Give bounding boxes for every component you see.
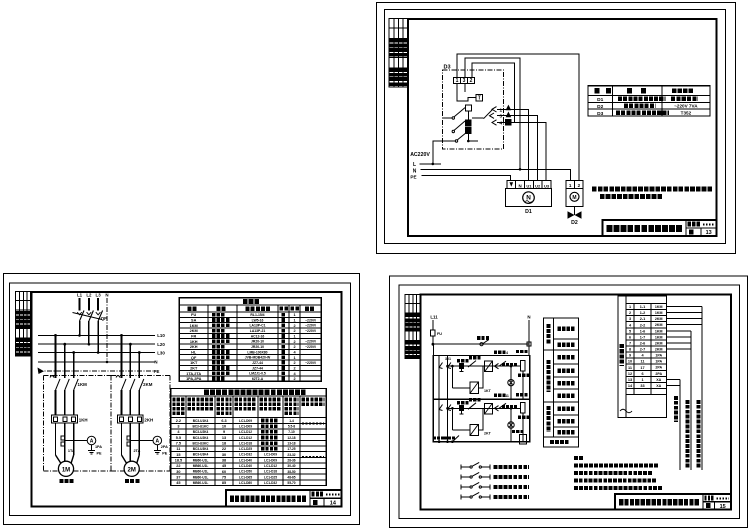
svg-text:JVB-MDB420-W: JVB-MDB420-W [245, 356, 271, 360]
contactor 2KM contacts [122, 379, 144, 390]
wires contactor to thermal relay [122, 390, 140, 415]
lamp 2HL [508, 407, 514, 442]
terminal row 4 [629, 323, 663, 327]
fan motor D1 body [506, 189, 552, 207]
wire stub terminal3 down [464, 83, 466, 92]
note line 4 [574, 486, 662, 490]
svg-text:2: 2 [293, 340, 295, 344]
bus N [38, 360, 158, 365]
svg-text:~220V/: ~220V/ [305, 340, 316, 344]
terminal row 10 [628, 360, 663, 364]
svg-text:7.5: 7.5 [176, 442, 181, 446]
svg-text:1KM: 1KM [655, 335, 663, 339]
svg-text:M: M [572, 195, 576, 201]
incoming phase labels L1 L2 L3 N [77, 293, 109, 298]
svg-text:L11: L11 [430, 315, 438, 320]
wire N drop [528, 320, 530, 344]
svg-text:LC1-D09: LC1-D09 [239, 424, 252, 428]
svg-text:2KM: 2KM [655, 341, 663, 345]
equipment row FU [191, 313, 196, 317]
equipment table rows [179, 317, 321, 376]
label KT contact [502, 363, 518, 366]
control supply rail [432, 342, 532, 346]
wires contactor to thermal relay [56, 390, 74, 415]
svg-text:QF: QF [191, 356, 197, 360]
bus junction dots [78, 334, 108, 363]
ammeter ground [88, 445, 102, 456]
selection table rows [171, 423, 326, 480]
svg-text:N: N [154, 360, 157, 365]
vertical label terminal strip [619, 344, 624, 366]
svg-text:U1: U1 [526, 183, 532, 188]
table title She Bei Biao [243, 299, 260, 304]
panel B inner thin border [10, 283, 351, 516]
svg-text:LC1-D40: LC1-D40 [239, 464, 252, 468]
table row D3 [597, 111, 603, 117]
wire output row3 to terminal U3 [497, 123, 546, 181]
svg-text:18: 18 [222, 442, 226, 446]
remote switch label 4 [494, 495, 529, 499]
svg-text:~220V/: ~220V/ [305, 345, 316, 349]
section 2 main wire [446, 407, 520, 410]
equipment row QF [191, 356, 197, 360]
label SA [477, 336, 490, 340]
svg-text:JR20-10: JR20-10 [251, 345, 264, 349]
svg-text:8: 8 [629, 348, 631, 352]
svg-text:PE: PE [162, 452, 168, 456]
svg-text:1TA: 1TA [68, 449, 75, 453]
svg-text:2KH: 2KH [144, 418, 153, 423]
valve actuator D2 body [566, 189, 583, 207]
equipment row 1TA,2TA [186, 372, 201, 376]
svg-text:13-18: 13-18 [287, 442, 295, 446]
XA auxiliary box bottom right [519, 434, 526, 443]
remote switch label 2 [494, 475, 529, 479]
fuse FU [431, 330, 443, 336]
label 1SB [457, 359, 469, 362]
svg-text:FU: FU [191, 313, 196, 317]
svg-text:L3: L3 [96, 293, 102, 298]
contact blade section 2 [468, 403, 476, 410]
svg-text:2: 2 [578, 183, 581, 188]
svg-text:2: 2 [293, 377, 295, 381]
dashes in last column [302, 424, 324, 458]
function description table [544, 318, 579, 447]
svg-text:1KM: 1KM [655, 329, 663, 333]
svg-text:~220V/: ~220V/ [305, 318, 316, 322]
svg-text:U2: U2 [535, 183, 541, 188]
svg-text:3: 3 [463, 78, 466, 84]
svg-text:11: 11 [505, 394, 509, 398]
svg-text:2KM: 2KM [655, 323, 663, 327]
wire terminal1 down to thermostat sensor T [457, 83, 476, 101]
current transformer 1TA [61, 436, 65, 446]
svg-text:2: 2 [293, 324, 295, 328]
svg-text:2: 2 [293, 329, 295, 333]
svg-text:37: 37 [176, 475, 180, 479]
terminal header 1 3 2 [454, 77, 475, 84]
svg-text:13: 13 [706, 230, 712, 236]
terminal row 9 [629, 354, 663, 358]
svg-text:4: 4 [506, 351, 508, 355]
remote switch symbol 2 [461, 472, 490, 479]
panel C signature strip table [405, 295, 420, 359]
bus PE dash-dot [38, 369, 159, 374]
svg-text:2PA: 2PA [655, 372, 662, 376]
svg-text:1PA: 1PA [655, 360, 662, 364]
svg-text:BC3-U2K4: BC3-U2K4 [193, 430, 209, 434]
note line 2 [574, 471, 652, 475]
contactor coil 1KM [520, 361, 525, 400]
svg-text:7: 7 [629, 342, 631, 346]
svg-text:L30: L30 [157, 350, 165, 355]
panel C outer sheet border [390, 276, 748, 528]
contact row numbers 1 3 4 [500, 107, 503, 125]
section 1 main wire [446, 365, 520, 368]
svg-text:1-2: 1-2 [640, 311, 646, 315]
selection row 11kW [176, 447, 295, 451]
terminal row 8 [629, 347, 663, 351]
svg-text:N: N [527, 315, 530, 320]
bus L10 [38, 333, 165, 338]
svg-text:U3: U3 [544, 183, 550, 188]
svg-text:1PA: 1PA [655, 354, 662, 358]
svg-text:D2: D2 [597, 104, 603, 110]
rotated cable label 2 [685, 400, 689, 468]
remote switch label 3 [494, 485, 529, 489]
svg-text:LC1-D32: LC1-D32 [239, 453, 252, 457]
panel A outer sheet border [377, 3, 736, 254]
svg-text:1PA,2PA: 1PA,2PA [186, 377, 202, 381]
svg-text:1-4: 1-4 [289, 419, 294, 423]
bus L20 [38, 342, 165, 347]
selection row 45kW [176, 481, 296, 485]
svg-text:LC1-D18: LC1-D18 [239, 441, 252, 445]
svg-text:2PA: 2PA [655, 366, 662, 370]
selection row 15kW [176, 453, 296, 457]
wires thermal relay to motor [56, 423, 74, 463]
left vertical wire 1 [439, 356, 442, 442]
svg-text:D3: D3 [597, 111, 603, 117]
svg-text:5: 5 [629, 329, 631, 333]
svg-text:60: 60 [222, 470, 226, 474]
svg-text:D1: D1 [525, 209, 532, 215]
svg-text:5.5: 5.5 [176, 436, 181, 440]
svg-text:AC12-16: AC12-16 [251, 334, 265, 338]
bottom rail junction dots and labels [438, 436, 459, 444]
remote switch symbol 3 [461, 482, 490, 489]
equipment row 1PA,2PA [186, 377, 202, 381]
contact blade section 1 [468, 361, 476, 368]
svg-text:4: 4 [293, 350, 296, 354]
svg-text:LC1-D32: LC1-D32 [264, 481, 277, 485]
svg-text:17: 17 [640, 366, 644, 370]
pushbutton 2SB [459, 406, 463, 414]
thermostat enclosure D3 (dash-dot box) [443, 70, 504, 149]
svg-text:MB60-U1L: MB60-U1L [193, 481, 209, 485]
svg-text:XA: XA [656, 378, 661, 382]
svg-text:LC1-D09: LC1-D09 [239, 419, 252, 423]
svg-text:2.2: 2.2 [176, 419, 181, 423]
svg-text:1KH: 1KH [190, 340, 198, 344]
svg-text:T352: T352 [681, 111, 692, 116]
svg-text:AC220V: AC220V [410, 152, 430, 158]
lamp 1HL [508, 365, 514, 399]
panel C title block [615, 494, 731, 510]
svg-text:2-1: 2-1 [640, 317, 646, 321]
bottom full-width function row text [550, 440, 570, 444]
svg-text:1: 1 [293, 319, 295, 323]
svg-text:HL: HL [191, 350, 197, 354]
selection row 30kW [176, 470, 296, 474]
motor 1M [58, 461, 73, 476]
svg-text:33: 33 [640, 384, 644, 388]
svg-text:N: N [105, 293, 108, 298]
svg-text:~220V 7VA: ~220V 7VA [674, 104, 698, 109]
svg-text:A: A [155, 439, 159, 445]
break marks on enclosure top [50, 376, 120, 378]
equipment row 2KH [190, 345, 198, 349]
svg-text:LC1-D09: LC1-D09 [264, 458, 277, 462]
feeder 1 tap wires [54, 334, 75, 378]
chevron contact section 2 [495, 403, 507, 411]
equipment row 1KT [190, 361, 198, 365]
panel A title block [603, 220, 717, 236]
motor 2M [124, 461, 139, 476]
svg-text:LC1-D12: LC1-D12 [264, 464, 277, 468]
svg-text:18.5: 18.5 [175, 458, 182, 462]
svg-text:1PA: 1PA [95, 445, 102, 449]
svg-text:2PA: 2PA [161, 445, 168, 449]
svg-text:LMB-100X80: LMB-100X80 [247, 350, 267, 354]
svg-text:12: 12 [628, 372, 632, 376]
group labels vertical [546, 324, 550, 432]
svg-text:L20: L20 [157, 342, 165, 347]
thermal relay 1KH [51, 415, 77, 423]
svg-text:10: 10 [628, 360, 632, 364]
svg-text:23-32: 23-32 [287, 453, 295, 457]
svg-text:15: 15 [176, 453, 180, 457]
selection row 37kW [176, 475, 296, 479]
svg-text:PE: PE [96, 452, 102, 456]
svg-text:13: 13 [222, 436, 226, 440]
svg-text:1: 1 [569, 183, 572, 188]
wire W3 terminal2 loop [472, 63, 515, 122]
svg-text:A: A [90, 439, 94, 445]
svg-text:2: 2 [293, 345, 295, 349]
label 1KM aux [469, 356, 481, 359]
note line 1 [574, 464, 658, 468]
fan name label [59, 479, 74, 483]
svg-text:MB60-U1L: MB60-U1L [193, 470, 209, 474]
feeder 2 tap wires [120, 334, 141, 378]
thermal relay 2KH [117, 415, 143, 423]
svg-text:12-18: 12-18 [287, 436, 295, 440]
svg-text:7-10: 7-10 [288, 430, 295, 434]
svg-text:L10: L10 [157, 333, 165, 338]
svg-text:N: N [413, 168, 417, 174]
terminal row 7 [629, 341, 663, 345]
svg-text:LC1-D25: LC1-D25 [264, 475, 277, 479]
svg-text:22: 22 [176, 464, 180, 468]
svg-text:1: 1 [293, 334, 295, 338]
timer relay 2KT [452, 408, 483, 435]
svg-text:LC1-D50: LC1-D50 [239, 470, 252, 474]
note text line 1 [592, 187, 712, 192]
current transformer 2TA [127, 436, 131, 446]
selection table columns [186, 396, 300, 485]
svg-text:4: 4 [641, 354, 644, 358]
svg-text:LA13P-21: LA13P-21 [250, 329, 266, 333]
wire W1 terminal1 to valve D2 terminal 2 [457, 54, 579, 181]
supply labels AC220V L N PE [410, 152, 430, 180]
svg-text:1KM: 1KM [78, 382, 88, 387]
mid rail [433, 398, 530, 400]
svg-text:6: 6 [629, 335, 631, 339]
table header cell Ming Cheng [627, 88, 632, 93]
svg-text:MB60-U1L: MB60-U1L [193, 475, 209, 479]
svg-text:1M: 1M [62, 467, 70, 473]
svg-text:1KM: 1KM [655, 305, 663, 309]
svg-text:55-70: 55-70 [287, 481, 295, 485]
svg-text:2KM: 2KM [143, 382, 153, 387]
timer relay 1KT [452, 366, 483, 393]
svg-text:JR20-10: JR20-10 [251, 340, 264, 344]
svg-text:L2: L2 [86, 293, 92, 298]
svg-text:D2: D2 [571, 220, 578, 226]
cable bundle wires rows 1-4 [666, 307, 702, 471]
temperature sensor T [476, 94, 482, 101]
wire W2 terminal3 to N line junction [465, 58, 520, 169]
svg-text:1-7: 1-7 [640, 335, 646, 339]
svg-text:1: 1 [293, 313, 295, 317]
fan name label [125, 479, 140, 483]
selection row 4kW [177, 430, 295, 434]
selection row 3kW [177, 424, 295, 428]
svg-text:JZ7-44: JZ7-44 [252, 366, 263, 370]
wire L11 drop [432, 320, 434, 330]
selection parameter table [171, 389, 326, 486]
panel C inner thin border [399, 285, 740, 519]
selection row 7.5kW [176, 441, 296, 445]
chevron contact section 1 [495, 361, 507, 369]
svg-text:11: 11 [628, 366, 632, 370]
selection table title [204, 390, 305, 395]
terminal strip table [618, 296, 666, 417]
neutral dash-dot wire [106, 298, 108, 362]
thermostat internal contact ladder [443, 105, 478, 142]
svg-text:1KH: 1KH [79, 418, 88, 423]
svg-text:45: 45 [222, 464, 226, 468]
svg-text:2: 2 [629, 311, 631, 315]
svg-text:2TA: 2TA [133, 449, 140, 453]
svg-text:MB60-U1L: MB60-U1L [193, 464, 209, 468]
rotated cable label 1 [674, 396, 678, 422]
svg-text:LMZJ1-0.5: LMZJ1-0.5 [249, 372, 266, 376]
contactor coil 2KM [520, 403, 525, 442]
svg-text:LC1-D25: LC1-D25 [239, 447, 252, 451]
wire N to valve terminal D2-1 [421, 168, 571, 181]
svg-text:1KT: 1KT [484, 389, 492, 393]
svg-text:1: 1 [641, 378, 643, 382]
ammeter 2PA [153, 436, 162, 445]
svg-text:2KM: 2KM [655, 347, 663, 351]
rotated cable label 3 [696, 400, 700, 468]
terminal row 14 [628, 384, 662, 388]
svg-text:L1: L1 [77, 293, 83, 298]
svg-text:LC1-D09: LC1-D09 [264, 453, 277, 457]
svg-text:38-50: 38-50 [287, 470, 295, 474]
terminal block D1 of fan motor [507, 181, 551, 189]
svg-text:BC3-U1KC: BC3-U1KC [192, 424, 209, 428]
panel A main thick frame [408, 19, 717, 236]
svg-text:1KT: 1KT [190, 361, 198, 365]
output symbols arrows and square [505, 105, 511, 125]
phase drop wires [80, 298, 99, 311]
selection row 5.5kW [176, 436, 296, 440]
svg-text:LA13P-C1: LA13P-C1 [249, 324, 265, 328]
butterfly valve symbol [568, 207, 582, 219]
wire PE to motor ground terminal [422, 175, 511, 180]
svg-text:2KT: 2KT [190, 366, 198, 370]
equipment row FR [191, 334, 196, 338]
panel B: fan power distribution schematic sheet [4, 274, 360, 525]
svg-text:BC3-U2K4: BC3-U2K4 [193, 436, 209, 440]
equipment row HL [191, 350, 197, 354]
svg-text:30-40: 30-40 [287, 464, 295, 468]
equipment row 1KH [190, 340, 198, 344]
svg-text:2-7: 2-7 [640, 348, 646, 352]
svg-text:3: 3 [629, 317, 631, 321]
svg-text:4: 4 [293, 372, 296, 376]
terminal row 13 [628, 378, 662, 382]
svg-text:48-65: 48-65 [287, 475, 295, 479]
terminal row 5 [629, 329, 663, 333]
svg-text:14: 14 [628, 384, 633, 388]
ammeter ground [154, 445, 168, 456]
svg-text:6: 6 [641, 372, 643, 376]
bus L30 [38, 350, 165, 355]
svg-text:9: 9 [629, 354, 631, 358]
svg-text:2: 2 [470, 78, 473, 84]
L feed wire into thermostat [432, 141, 444, 165]
PE arrow symbol [38, 368, 45, 375]
svg-text:XA: XA [656, 384, 661, 388]
svg-text:PE: PE [154, 369, 160, 374]
break mark in terminal table [620, 409, 632, 413]
svg-text:13: 13 [628, 378, 632, 382]
thermostat output selector contacts [472, 107, 497, 126]
panel A inner thin border [385, 10, 726, 244]
svg-text:1KM: 1KM [190, 324, 198, 328]
svg-text:LC1-D12: LC1-D12 [239, 436, 252, 440]
terminal rows [626, 310, 666, 395]
label KT contact [502, 405, 518, 408]
remote switch symbol 4 [461, 492, 490, 499]
terminal row 3 [629, 317, 663, 321]
svg-text:2KT: 2KT [484, 431, 492, 435]
svg-text:38: 38 [222, 458, 226, 462]
svg-text:15: 15 [720, 504, 726, 510]
terminal row 6 [629, 335, 663, 339]
wires thermal relay to motor [122, 423, 140, 463]
remote switch label 1 [494, 465, 529, 469]
label 2SB [457, 401, 469, 404]
left vertical wire 2 [448, 356, 451, 442]
equipment row 2KM [190, 329, 198, 333]
svg-text:75: 75 [222, 475, 226, 479]
relay box with cross section 2 [485, 403, 493, 414]
